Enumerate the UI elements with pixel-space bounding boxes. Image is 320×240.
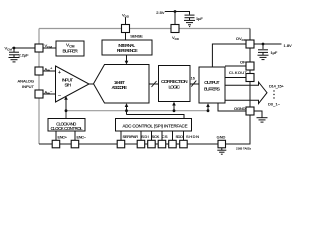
svg-text:SDI: SDI (141, 134, 148, 139)
svg-text:SHDN: SHDN (186, 134, 199, 139)
svg-text:LOGIC: LOGIC (169, 84, 181, 90)
svg-text:SENSE: SENSE (130, 34, 143, 39)
svg-text:2.2µF: 2.2µF (19, 53, 30, 58)
svg-text:+: + (58, 70, 61, 76)
svg-text:ENC−: ENC− (77, 135, 87, 140)
svg-text:ENC+: ENC+ (58, 135, 68, 140)
svg-text:VDD: VDD (122, 12, 130, 18)
svg-text:BUFFERS: BUFFERS (204, 87, 220, 93)
svg-text:1µF: 1µF (196, 16, 203, 21)
svg-text:SDO: SDO (175, 134, 183, 139)
svg-text:SER/PAR: SER/PAR (123, 134, 139, 139)
svg-text:OF: OF (240, 60, 246, 65)
svg-text:REFERENCE: REFERENCE (117, 48, 138, 54)
svg-text:1.8V: 1.8V (284, 43, 293, 48)
svg-text:OUTPUT: OUTPUT (204, 80, 219, 86)
svg-text:VDD: VDD (172, 35, 180, 41)
svg-text:VCM: VCM (66, 43, 75, 49)
svg-text:SCK: SCK (152, 134, 160, 139)
svg-text:2165 TA01b: 2165 TA01b (236, 146, 251, 150)
svg-text:VCM: VCM (5, 46, 13, 52)
svg-text:INPUT: INPUT (22, 84, 35, 89)
svg-text:1µF: 1µF (271, 50, 278, 55)
svg-text:2.5V: 2.5V (156, 10, 165, 15)
svg-text:VCM: VCM (45, 43, 53, 49)
svg-text:CORRECTION: CORRECTION (161, 79, 188, 85)
svg-text:ADC CORE: ADC CORE (112, 85, 128, 91)
svg-text:S/H: S/H (65, 83, 72, 89)
svg-text:BUFFER: BUFFER (63, 48, 79, 54)
svg-text:GND: GND (217, 135, 226, 140)
svg-text:CLOCK CONTROL: CLOCK CONTROL (51, 126, 84, 131)
svg-text:16: 16 (191, 77, 195, 81)
svg-text:CLKOUT: CLKOUT (229, 70, 248, 75)
svg-text:–: – (58, 93, 61, 99)
svg-text:ADC CONTROL (SPI) INTERFACE: ADC CONTROL (SPI) INTERFACE (123, 124, 188, 129)
svg-text:D0_1−: D0_1− (268, 101, 281, 106)
svg-text:D14_15+: D14_15+ (269, 83, 285, 88)
svg-text:OGND: OGND (234, 106, 246, 111)
svg-text:OVDD: OVDD (236, 36, 247, 42)
svg-text:CS: CS (162, 134, 168, 139)
